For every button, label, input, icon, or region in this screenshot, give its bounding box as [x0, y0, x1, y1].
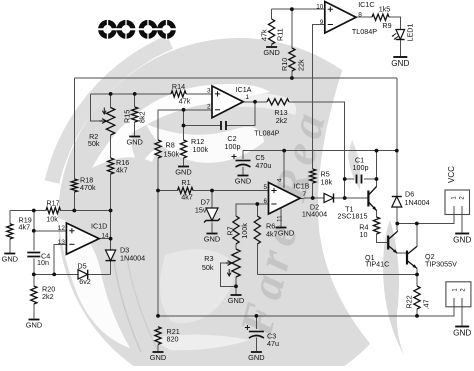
wire R22 branch [416, 275, 418, 287]
wire R2 wiper bracket [90, 94, 99, 121]
wire C5 riser [242, 151, 244, 159]
svg-text:47u: 47u [267, 339, 279, 348]
svg-text:GND: GND [453, 329, 471, 338]
svg-text:R14: R14 [172, 82, 185, 91]
diode D2 1N4004 [324, 193, 334, 202]
wire Q2 emitter down [416, 268, 418, 275]
svg-text:47k: 47k [260, 29, 269, 41]
svg-text:470k: 470k [80, 183, 96, 192]
svg-text:GND: GND [204, 235, 220, 244]
svg-text:IC1D: IC1D [91, 222, 107, 231]
resistor R10 22k [289, 48, 295, 71]
svg-text:GND: GND [26, 321, 42, 330]
wire IC1B pin4 riser [283, 151, 285, 188]
wire D5 row [34, 273, 78, 275]
svg-text:10n: 10n [37, 258, 49, 267]
svg-text:10k: 10k [46, 215, 58, 224]
svg-text:IC1C: IC1C [358, 0, 374, 9]
capacitor C4 10n [27, 253, 40, 257]
ground R11 [266, 46, 277, 48]
svg-text:TL084P: TL084P [254, 129, 279, 138]
svg-text:GND: GND [263, 48, 279, 57]
resistor R2 potentiometer 50k [106, 108, 114, 136]
wire VCC pin2 to GND [461, 207, 463, 233]
svg-text:11: 11 [277, 215, 284, 222]
svg-text:VCC: VCC [447, 166, 456, 183]
wire C4 vertical [33, 211, 35, 251]
wire bottom rail y316 [158, 298, 454, 316]
wire R12 branch [183, 110, 185, 140]
wire R2-R16 vertical [110, 94, 112, 108]
svg-text:D5: D5 [77, 261, 86, 270]
wire R3 wiper bracket [221, 263, 237, 286]
svg-text:10: 10 [316, 4, 324, 11]
svg-text:R7: R7 [226, 226, 235, 235]
ground R3 [231, 294, 242, 296]
ground OUT connector [455, 326, 469, 328]
wire R19 branch [9, 211, 11, 224]
ground D7 [207, 233, 218, 235]
wire R21 to GND [157, 344, 159, 351]
op-amp IC1A [212, 86, 243, 118]
svg-text:50k: 50k [202, 263, 214, 272]
svg-text:2: 2 [207, 103, 211, 110]
ground R15 [129, 136, 140, 138]
svg-text:R17: R17 [46, 199, 59, 208]
wire D6 vertical [396, 78, 398, 197]
wire feedback rail y274 [257, 274, 417, 276]
wire R17 row [10, 210, 46, 212]
wire LED1 to GND [399, 41, 401, 57]
wire IC1D output to D3 [99, 238, 111, 240]
svg-text:GND: GND [235, 177, 251, 186]
resistor R8 150k [155, 140, 161, 158]
resistor R11 47k [269, 19, 275, 44]
resistor R12 100k [180, 140, 186, 158]
wire R1 row to IC1B pin5 [158, 190, 178, 192]
svg-text:TIP41C: TIP41C [365, 260, 389, 269]
svg-text:100p: 100p [225, 142, 241, 151]
logo rings [97, 18, 178, 40]
svg-text:R8: R8 [166, 141, 175, 150]
resistor R5 18k [310, 169, 316, 183]
svg-text:GND: GND [278, 229, 294, 238]
svg-text:R9: R9 [382, 21, 391, 30]
svg-text:150k: 150k [164, 150, 180, 159]
resistor R1 4k7 [178, 187, 194, 193]
ground LED1 [393, 56, 407, 58]
svg-text:R15: R15 [123, 110, 132, 123]
wire IC1A pin2 row [158, 110, 212, 140]
svg-text:100k: 100k [193, 145, 209, 154]
svg-text:LED1: LED1 [406, 24, 415, 42]
diode D7 zener 15v [206, 208, 218, 221]
svg-text:4k7: 4k7 [19, 223, 31, 232]
wire VCC rail y223 [397, 207, 454, 224]
wire Q2 collector riser [416, 224, 418, 248]
ground C5 [238, 175, 249, 177]
wire IC1B output row to T1 base [300, 197, 324, 199]
wire R9 to LED1 [389, 17, 400, 29]
wire supply rail y150 [243, 150, 397, 152]
wire OUT pin2 to GND [461, 298, 463, 326]
wire R11 branch [271, 9, 273, 19]
svg-text:GND: GND [453, 236, 471, 245]
svg-text:7: 7 [303, 191, 307, 198]
svg-text:8k2: 8k2 [138, 111, 147, 123]
svg-text:13: 13 [58, 239, 66, 246]
svg-text:GND: GND [150, 353, 166, 362]
transistor Q2 TIP3055V [406, 251, 408, 265]
resistor R6 4k7 [254, 216, 260, 244]
svg-text:TL084P: TL084P [352, 27, 377, 36]
svg-text:2k2: 2k2 [276, 116, 288, 125]
wire D7 branch [211, 191, 213, 209]
svg-text:R22: R22 [405, 295, 414, 308]
svg-text:14: 14 [102, 232, 110, 239]
wire IC1D pin12 [34, 230, 67, 232]
wire C3 branch [255, 316, 257, 329]
capacitor C5 470u [236, 160, 251, 162]
wire R2 top row y94 [90, 93, 171, 95]
svg-text:IC1B: IC1B [294, 182, 310, 191]
op-amp IC1C [325, 2, 356, 34]
svg-text:1N4004: 1N4004 [302, 210, 327, 219]
resistor R19 4k7 [7, 224, 13, 239]
resistor R16 4k7 [108, 158, 114, 174]
svg-text:12: 12 [58, 225, 66, 232]
wire IC1D pin13 [54, 244, 66, 274]
wire R8 down rail [157, 158, 159, 316]
svg-text:R3: R3 [204, 254, 213, 263]
diode D6 1N4004 [392, 197, 402, 208]
wire R10 vertical [291, 9, 293, 48]
LED1 [396, 30, 405, 40]
ground C3 [251, 351, 262, 353]
resistor R4 10 [373, 217, 379, 234]
svg-text:22k: 22k [297, 59, 306, 71]
svg-text:6v2: 6v2 [79, 277, 91, 286]
decorative watermark (not labelled further) [52, 38, 474, 371]
resistor R13 2k2 [267, 99, 289, 105]
wire T1 emitter to R4 [376, 210, 378, 217]
wire T1 collector riser [376, 151, 378, 187]
ground R20 [29, 319, 40, 321]
diode D5 zener 6v2 [78, 270, 88, 279]
op-amp IC1B [269, 183, 301, 215]
transistor T1 2SC1815 [367, 191, 369, 207]
svg-text:470u: 470u [255, 161, 271, 170]
resistor R14 47k [171, 91, 186, 97]
wire C2 feedback [184, 125, 222, 127]
svg-text:TIP3055V: TIP3055V [425, 260, 457, 269]
connector VCC [445, 190, 470, 215]
op-amp IC1D [66, 223, 99, 254]
wire R5 vertical from IC1C pin9 [313, 25, 325, 170]
wire left edge to R18 [73, 78, 75, 179]
svg-text:IC1A: IC1A [236, 85, 252, 94]
svg-text:GND: GND [228, 296, 244, 305]
ground VCC connector [455, 233, 469, 235]
junction dots [109, 92, 113, 96]
svg-text:8: 8 [358, 11, 362, 18]
resistor R7 100k [233, 216, 239, 244]
svg-text:R10: R10 [280, 58, 289, 71]
wire IC1B pin11 stub [280, 209, 282, 227]
wire top feedback rail y78 [74, 77, 397, 79]
svg-text:9: 9 [320, 19, 324, 26]
capacitor C2 100p [221, 121, 226, 130]
wire IC1C pin10 row [272, 8, 325, 10]
svg-text:GND: GND [248, 353, 264, 362]
svg-text:15v: 15v [195, 206, 207, 215]
wire IC1C output to R9 [356, 16, 372, 18]
capacitor C3 47u [249, 331, 264, 333]
svg-text:1N4004: 1N4004 [120, 254, 145, 263]
wire C1 left tap [345, 178, 354, 180]
wire C1 right to collector [364, 178, 377, 180]
resistor R21 820 [155, 327, 161, 345]
transistor Q1 TIP41C [387, 236, 389, 250]
svg-text:GND: GND [126, 138, 142, 147]
svg-text:5: 5 [263, 184, 267, 191]
wire R18 to R17 row [73, 192, 75, 211]
svg-text:2SC1815: 2SC1815 [338, 212, 368, 221]
ground R19 [4, 253, 15, 255]
wire R20 branch [33, 274, 35, 286]
svg-text:10: 10 [360, 230, 368, 239]
resistor R18 470k [71, 179, 77, 192]
svg-text:1: 1 [246, 94, 250, 101]
wire R6 bottom riser [256, 244, 258, 275]
svg-text:6: 6 [263, 198, 267, 205]
svg-text:4k7: 4k7 [181, 193, 193, 202]
connector OUT [446, 282, 471, 307]
svg-text:47k: 47k [179, 97, 191, 106]
svg-text:1k5: 1k5 [379, 5, 391, 14]
svg-text:18k: 18k [321, 178, 333, 187]
resistor R9 1k5 [372, 14, 389, 20]
resistor R3 potentiometer 50k [232, 249, 240, 277]
svg-text:.47: .47 [422, 300, 431, 310]
capacitor C1 100p [357, 175, 362, 184]
wire IC1A output row [243, 101, 267, 103]
resistor R15 8k2 [132, 107, 138, 122]
resistor R17 10k [46, 207, 61, 213]
svg-text:1N4004: 1N4004 [405, 198, 430, 207]
svg-text:R1: R1 [181, 178, 190, 187]
wire R15 branch [134, 94, 136, 107]
svg-text:100p: 100p [353, 163, 369, 172]
svg-text:4k7: 4k7 [266, 230, 278, 239]
ground R21 [153, 351, 164, 353]
svg-text:50k: 50k [88, 139, 100, 148]
svg-text:GND: GND [391, 59, 409, 68]
resistor R22 .47 [414, 286, 420, 309]
svg-text:4k7: 4k7 [116, 166, 128, 175]
svg-text:GND: GND [175, 168, 191, 177]
wire R13 to T1 base vertical [289, 102, 345, 198]
ground R12 [178, 166, 189, 168]
svg-text:R11: R11 [276, 28, 285, 41]
resistor R20 2k2 [31, 286, 37, 304]
wire Q1 emitter to Q2 base [397, 252, 406, 254]
svg-text:100k: 100k [240, 223, 249, 239]
svg-text:3: 3 [207, 87, 211, 94]
svg-text:GND: GND [2, 255, 18, 264]
diode D3 1N4004 [106, 250, 116, 261]
svg-text:820: 820 [167, 335, 179, 344]
ground IC1B pin11 [276, 227, 287, 229]
svg-text:4: 4 [277, 178, 284, 182]
wire IC1B pin6 row [236, 204, 269, 216]
wire R4 to Q1 base [377, 234, 388, 242]
wire R7-R3 column [235, 244, 237, 249]
svg-text:2k2: 2k2 [42, 292, 54, 301]
